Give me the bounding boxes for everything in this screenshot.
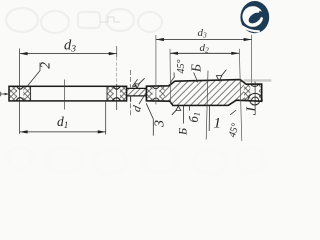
chamfer 45 leader (top) bbox=[170, 73, 174, 83]
svg-text:Б: Б bbox=[176, 128, 190, 136]
finish mark (open triangle) on stub bbox=[135, 78, 145, 88]
d2 right extension line bbox=[239, 49, 242, 141]
dimension d3 (left drawing) bbox=[20, 52, 117, 55]
ghost squiggle bbox=[100, 17, 120, 22]
logo core bbox=[247, 10, 263, 25]
cross hatch overlay left block bbox=[146, 86, 165, 101]
d2 left extension line bbox=[169, 49, 172, 104]
stub extension line bbox=[129, 70, 131, 117]
paper background bbox=[0, 0, 275, 180]
svg-text:3: 3 bbox=[153, 120, 168, 128]
svg-text:2: 2 bbox=[37, 62, 52, 69]
leader for d bbox=[130, 96, 132, 102]
finish mark on boss top bbox=[216, 70, 226, 81]
ghost bleed-through marks bottom bbox=[8, 147, 264, 174]
leader for item 1 bbox=[208, 106, 210, 131]
right bolt hole of flange with washer arcs bbox=[248, 84, 262, 105]
logo bridge bbox=[258, 11, 268, 19]
vertical centerline of ring bbox=[64, 80, 66, 110]
dimension d3 (right drawing) bbox=[156, 38, 252, 41]
small arrow onto stub bbox=[132, 79, 138, 87]
logo disc bbox=[240, 1, 269, 33]
d3 left extension line (bolt centerline) bbox=[155, 35, 157, 104]
right bolt centerline bbox=[254, 82, 256, 111]
svg-text:Г: Г bbox=[243, 106, 258, 116]
right bolt hole white column with arcs bbox=[113, 87, 121, 101]
svg-text:Б: Б bbox=[188, 64, 203, 73]
thickness arrow at left face bbox=[1, 92, 9, 96]
right bolt centerline / extension line bbox=[116, 46, 118, 57]
stub outline bbox=[127, 88, 147, 96]
d1 right extension line bbox=[105, 101, 107, 135]
right hatched block (bolt-hole section) bbox=[107, 86, 127, 101]
leader for surface B top bbox=[194, 73, 199, 83]
ghost bleed-through marks top-left bbox=[6, 8, 162, 33]
leader 45 bottom bbox=[230, 110, 236, 115]
left bolt hole of flange bbox=[152, 86, 159, 101]
leader for surface B bottom bbox=[183, 106, 185, 124]
dimension d2 bbox=[170, 52, 239, 55]
stub hatched body bbox=[127, 88, 147, 96]
flange body hatched bbox=[146, 80, 261, 106]
d3 right extension line bbox=[251, 35, 253, 84]
dimension d1 (left drawing) bbox=[20, 130, 106, 133]
logo white swirl bbox=[242, 6, 263, 27]
svg-text:1: 1 bbox=[214, 116, 222, 132]
diagonal leader to stub bbox=[139, 93, 146, 104]
cross hatch overlay right block bbox=[244, 84, 262, 101]
item leader 2 bbox=[28, 63, 40, 86]
logo bottom slit bbox=[242, 26, 259, 31]
grey smudge band bbox=[244, 79, 271, 81]
finish mark under bottom surface bbox=[172, 106, 181, 115]
svg-text:45°: 45° bbox=[176, 60, 187, 74]
left bolt hole white column with arcs bbox=[16, 87, 24, 101]
left bolt centerline / extension line bbox=[19, 49, 21, 134]
left hatched block (bolt-hole section) bbox=[9, 86, 31, 101]
flange centerline bbox=[206, 71, 208, 140]
leader for b1 bbox=[189, 106, 191, 111]
item leader 3 bbox=[146, 103, 153, 135]
ring body outline bbox=[9, 86, 127, 101]
flange outline bbox=[146, 80, 261, 106]
inner edge lines of blocks bbox=[30, 86, 32, 101]
